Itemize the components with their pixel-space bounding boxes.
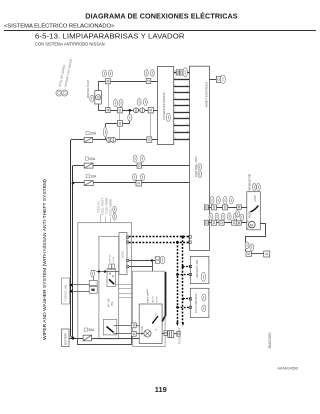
svg-text:CONTROL UNIT: CONTROL UNIT xyxy=(194,156,198,177)
connector oval above C10a xyxy=(133,174,137,181)
link wire a xyxy=(119,288,133,290)
wire motor out xyxy=(246,224,266,243)
connector oval inside E region xyxy=(166,113,170,121)
junction vr3 xyxy=(98,270,100,272)
connector oval at C11 xyxy=(160,256,165,264)
wire fuse row1 xyxy=(71,139,158,141)
pin tick 2 xyxy=(174,79,190,81)
svg-text:BATTERY: BATTERY xyxy=(64,332,68,344)
oval theft 1 xyxy=(202,294,206,301)
int motor circle xyxy=(144,330,151,337)
condenser box xyxy=(158,67,174,145)
connector oval above C10b xyxy=(141,174,145,181)
dest oval b xyxy=(113,206,117,212)
gnd connector 3 xyxy=(164,331,167,336)
legend symbol A xyxy=(56,90,62,96)
fuse F3 xyxy=(84,181,93,186)
connector oval on branch xyxy=(128,114,132,121)
connector C13 xyxy=(223,205,228,210)
motor switch blade xyxy=(250,206,258,212)
switch pin box a xyxy=(109,264,112,270)
svg-text:STOP: STOP xyxy=(254,195,257,202)
connector oval E106 xyxy=(90,95,94,102)
oval r1d xyxy=(229,196,233,204)
svg-text:WASHER PUMP: WASHER PUMP xyxy=(87,80,90,98)
svg-text:<SISTEMA ELÉCTRICO RELACIONADO: <SISTEMA ELÉCTRICO RELACIONADO> xyxy=(4,23,115,30)
oval r1a xyxy=(210,196,214,204)
connector C14 xyxy=(211,220,216,225)
wire motor pin2 xyxy=(241,222,247,224)
fuse F3 label xyxy=(86,175,89,178)
wire gnd link xyxy=(251,253,263,255)
vr wire y285 xyxy=(71,284,89,286)
connector C1 xyxy=(106,79,111,84)
svg-text:P: P xyxy=(155,328,158,330)
oval r1b xyxy=(216,196,220,204)
wire pin s1 xyxy=(129,260,155,262)
connector oval above J2 xyxy=(143,99,147,106)
pin box row2 xyxy=(204,220,208,225)
oval r2c xyxy=(221,213,225,220)
svg-text:10A: 10A xyxy=(90,175,97,179)
dashed tap B1 xyxy=(183,266,190,268)
joint connector J2 xyxy=(140,108,145,113)
connector oval above C9b xyxy=(140,155,144,162)
pin tick 9 xyxy=(174,125,190,127)
pin square d2 xyxy=(127,241,129,243)
wire branch lower xyxy=(129,121,131,124)
pin tick 11 xyxy=(174,139,190,141)
svg-text:N: N xyxy=(155,313,158,315)
svg-text:AUTO: AUTO xyxy=(152,296,155,302)
wire row2 xyxy=(208,222,246,224)
blade1 out wire xyxy=(116,284,133,286)
rail 1 xyxy=(70,140,72,337)
svg-text:M: M xyxy=(250,223,253,227)
connector oval above C9a xyxy=(133,155,137,162)
wire s-drop xyxy=(152,261,154,272)
connector oval E region tick1 xyxy=(183,68,187,77)
grommet barrel xyxy=(168,331,174,338)
washer pump M1 xyxy=(95,91,102,104)
switch box 1 xyxy=(107,269,116,287)
connector C3 xyxy=(216,76,220,82)
svg-text:WIPER MOTOR: WIPER MOTOR xyxy=(249,173,251,190)
oval r2d xyxy=(227,213,231,220)
svg-text:AKAKG4569: AKAKG4569 xyxy=(278,367,298,371)
gnd oval 2 xyxy=(250,244,254,251)
wire gnd drop xyxy=(245,249,247,252)
fuse F2 xyxy=(84,163,93,168)
wire pump-top xyxy=(98,81,100,90)
wire unit-right xyxy=(210,79,217,81)
svg-text:SMART ENTRANCE: SMART ENTRANCE xyxy=(204,82,208,108)
motor oval 2 xyxy=(257,183,261,190)
gnd connector 2 xyxy=(264,251,270,257)
svg-text:(VOL): (VOL) xyxy=(121,251,125,258)
fuse F2 label xyxy=(85,157,88,160)
pin sq th2 xyxy=(189,306,191,308)
switch contact dots xyxy=(112,276,113,277)
shielded drop (thick) xyxy=(165,272,167,316)
connector C17 xyxy=(131,323,136,328)
svg-text:DIAGRAMA DE CONEXIONES ELÉCTRI: DIAGRAMA DE CONEXIONES ELÉCTRICAS xyxy=(85,12,237,21)
motor pin box 2 xyxy=(237,221,242,225)
junction vr4 xyxy=(104,270,106,272)
pin tick 10 xyxy=(174,132,190,134)
switch blade 2 xyxy=(107,327,114,333)
header rule xyxy=(4,30,316,32)
wire gnd tail xyxy=(174,333,177,335)
svg-text:30A: 30A xyxy=(88,328,95,332)
pin square unit d2 xyxy=(189,241,192,244)
connector C7 xyxy=(117,121,122,127)
wire ground return xyxy=(78,336,132,345)
inline connector on tick1 xyxy=(176,70,179,75)
pin tick 6 xyxy=(174,105,190,107)
wire row1 xyxy=(208,207,246,209)
svg-text:LO HI: LO HI xyxy=(113,256,115,262)
svg-text:CON SISTEMA ANTIRROBO NISSAN: CON SISTEMA ANTIRROBO NISSAN xyxy=(35,41,105,46)
connector oval M1 xyxy=(220,75,225,83)
switch pin box b xyxy=(112,264,115,270)
motor pin box 1 xyxy=(237,205,242,209)
switch blade 1 xyxy=(109,279,114,284)
vr oval xyxy=(91,270,95,277)
connector oval E52 xyxy=(150,70,154,77)
legend symbol B xyxy=(62,90,68,96)
wire lower bus xyxy=(98,110,157,112)
connector C12 xyxy=(211,205,216,210)
junction node xyxy=(129,109,132,112)
wire pump-bottom xyxy=(98,104,100,110)
wiper switch inner box xyxy=(99,236,119,338)
vr link wire xyxy=(96,271,119,273)
wiper motor box xyxy=(247,192,260,230)
connector C10 xyxy=(136,180,141,186)
wire tc out xyxy=(162,333,164,335)
pin square d1 xyxy=(127,236,129,238)
inner contact arm xyxy=(153,316,158,323)
svg-text:6-5-13. LIMPIAPARABRISAS Y LAV: 6-5-13. LIMPIAPARABRISAS Y LAVADOR xyxy=(35,32,185,41)
joint connector J1 xyxy=(134,108,139,113)
pin square s1 xyxy=(127,259,129,261)
svg-text:WIPER AND WASHER SYSTEM (WITH: WIPER AND WASHER SYSTEM (WITH NISSAN ANT… xyxy=(42,179,48,340)
control unit box xyxy=(190,66,210,250)
svg-text:2BJG0630: 2BJG0630 xyxy=(268,332,272,348)
dashed tap A1 xyxy=(177,274,190,276)
dest wire 2 xyxy=(105,217,107,223)
junction row3 xyxy=(72,182,75,185)
gnd oval 1 xyxy=(245,242,249,249)
connector oval E107 xyxy=(109,70,113,77)
oval r2e xyxy=(233,213,237,220)
junction battery xyxy=(72,337,75,340)
junction s1 xyxy=(151,259,153,261)
junction vr2 xyxy=(70,290,73,293)
oval inside unit 1 xyxy=(198,164,202,170)
oval r2a xyxy=(209,213,213,220)
wire drop lower xyxy=(105,137,107,140)
wire C5 down (gray) xyxy=(119,113,121,140)
svg-text:FUSIBLE LINK: FUSIBLE LINK xyxy=(64,284,67,301)
dashed tap A2 xyxy=(177,307,190,309)
svg-text:119: 119 xyxy=(155,385,167,394)
pin tick 5 xyxy=(174,99,190,101)
svg-text:MOVE: MOVE xyxy=(248,211,251,219)
dashed vert A xyxy=(177,242,179,322)
wiper volume box xyxy=(119,233,127,275)
svg-text:TO EL-TURN: TO EL-TURN xyxy=(105,198,109,214)
junction D1 xyxy=(182,235,185,238)
connector C5 xyxy=(117,108,122,113)
joint connector J4 xyxy=(111,137,116,142)
svg-text:VOL: VOL xyxy=(112,301,114,306)
motor oval left 1 xyxy=(236,211,240,217)
svg-text:SECURITY IND: SECURITY IND xyxy=(195,260,199,278)
fusible link label xyxy=(84,328,87,331)
pin tick 4 xyxy=(174,92,190,94)
svg-text:THEFT WARNING: THEFT WARNING xyxy=(195,293,198,313)
connector oval on drop xyxy=(103,128,107,138)
svg-text:M: M xyxy=(97,96,100,100)
wire C1 down (gray) xyxy=(108,84,110,108)
pin tick 3 xyxy=(174,86,190,88)
dashed tap B2 xyxy=(183,298,190,300)
connector C9 xyxy=(137,163,142,168)
fuse F1 xyxy=(84,137,92,142)
pin square unit d1 xyxy=(189,236,192,239)
motor oval 1 xyxy=(252,183,256,190)
combination switch enclosure xyxy=(78,223,132,339)
theft warning box xyxy=(190,288,209,317)
oval inside security xyxy=(201,272,205,281)
security indicator box xyxy=(190,256,209,283)
oval r1c xyxy=(223,196,227,204)
connector C16 xyxy=(232,220,237,225)
time control outer box xyxy=(133,271,166,346)
dest wire 1 xyxy=(100,215,102,223)
svg-text:CONDENSER (WIPER): CONDENSER (WIPER) xyxy=(162,92,166,120)
link wire b xyxy=(119,293,133,295)
pin square s2 xyxy=(127,266,129,268)
oval inside unit 2 xyxy=(198,171,202,177)
joint connector J3 xyxy=(106,137,111,142)
pin box row1 xyxy=(204,205,208,210)
junction D2 xyxy=(176,241,179,244)
connector oval E51 xyxy=(114,99,118,106)
connector C11 xyxy=(155,257,160,263)
svg-text:OFF INT: OFF INT xyxy=(110,253,112,262)
pin sq sec2 xyxy=(189,273,191,275)
dashed line D2 xyxy=(129,242,190,244)
connector oval above J1 xyxy=(137,99,141,106)
junction vr1 xyxy=(70,284,73,287)
motor oval left 2 xyxy=(240,214,244,220)
connector C18 xyxy=(131,331,136,336)
vr wire y291 xyxy=(71,291,89,293)
wire sub-bus left down xyxy=(105,123,107,127)
vr drop wire xyxy=(104,272,106,274)
wire top bus xyxy=(98,81,157,83)
svg-text:20A: 20A xyxy=(89,157,96,161)
wire pin s2 xyxy=(129,266,152,268)
fl box label (rotated) xyxy=(62,278,70,304)
time control inner box xyxy=(139,304,162,344)
svg-text:STOP: STOP xyxy=(157,296,159,302)
vr symbol xyxy=(89,280,97,285)
dest wire 3 xyxy=(110,218,112,223)
connector oval E41 xyxy=(144,70,148,77)
dashed line D1 xyxy=(129,236,190,238)
switch box 2 xyxy=(103,319,117,335)
wire fuse row2 xyxy=(73,165,190,167)
svg-text:: WITHOUT INT WIPER: : WITHOUT INT WIPER xyxy=(63,59,73,89)
dashed vert B xyxy=(182,237,184,323)
battery box xyxy=(62,329,70,347)
connector oval E44 xyxy=(103,70,107,77)
svg-text:TO EL-HORN: TO EL-HORN xyxy=(109,199,113,216)
svg-text:INT SW: INT SW xyxy=(109,298,111,307)
link wire c xyxy=(119,297,133,299)
connector C4 xyxy=(106,108,111,113)
gnd end connector xyxy=(177,331,180,336)
connector C8 xyxy=(147,137,152,142)
wire wash a xyxy=(114,325,140,327)
svg-text:PARK SW: PARK SW xyxy=(147,292,150,303)
pin sq sec1 xyxy=(189,265,191,267)
wire fuse row3 xyxy=(73,182,190,184)
wire battery xyxy=(69,338,139,340)
svg-text:TO EL-ILL: TO EL-ILL xyxy=(97,200,101,213)
wire motor pin1 xyxy=(241,207,247,209)
pin tick 7 xyxy=(174,112,190,114)
pin tick 1 xyxy=(174,72,190,74)
connector C6 xyxy=(148,107,153,113)
oval r2b xyxy=(215,213,219,220)
pin tick 8 xyxy=(174,118,190,120)
dest oval a xyxy=(113,213,117,219)
connector oval E62 xyxy=(119,99,123,106)
pin sq th1 xyxy=(189,298,191,300)
wire sub bus xyxy=(106,123,130,125)
rail 2 xyxy=(72,166,74,339)
connector C2 xyxy=(146,78,151,83)
wire junction down xyxy=(129,110,131,115)
oval theft 2 xyxy=(202,305,206,312)
connector C15 xyxy=(219,220,224,225)
gnd connector 1 xyxy=(246,251,251,256)
fuse F1 label xyxy=(86,132,89,135)
wire wash b xyxy=(114,333,144,335)
svg-text:TO EL-THEFT: TO EL-THEFT xyxy=(101,197,105,215)
motor M circle xyxy=(249,221,256,228)
wire C6 down (gray) xyxy=(150,113,152,137)
svg-text:20A: 20A xyxy=(90,132,97,136)
fusible link FL xyxy=(83,335,92,341)
